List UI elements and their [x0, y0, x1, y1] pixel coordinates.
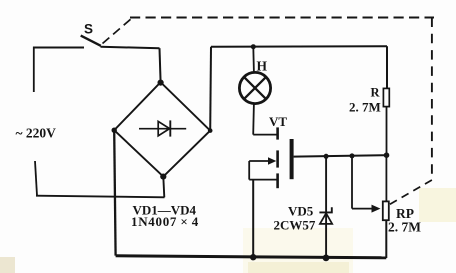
- zener diode VD5 vertical lead: [325, 156, 327, 258]
- wire: VT substrate lead: [249, 160, 270, 162]
- dashed mechanical link: diagonal from switch: [103, 18, 133, 44]
- wire: RP wiper drop: [351, 156, 353, 209]
- wire: left rail upper vertical segment: [33, 47, 35, 92]
- svg-text:R: R: [371, 86, 381, 100]
- wire: VT substrate to source link: [248, 161, 250, 180]
- transistor VT source electrode bar: [276, 173, 279, 188]
- wire: right corner down to resistor R: [386, 46, 388, 88]
- dashed mechanical link: diagonal to RP: [390, 180, 432, 205]
- svg-text:2. 7M: 2. 7M: [349, 100, 381, 115]
- dashed mechanical link: top horizontal: [130, 17, 434, 19]
- junction dot: bridge right vertex: [208, 128, 213, 133]
- potentiometer RP body: [383, 201, 389, 220]
- wire: gate node down to RP top: [385, 155, 387, 201]
- lamp H circle: [239, 72, 270, 103]
- junction dot: bridge top vertex: [158, 80, 164, 86]
- svg-text:VD5: VD5: [288, 204, 314, 219]
- wire: switch pivot to corner: [101, 47, 160, 48]
- wire: RP wiper horizontal: [352, 208, 374, 210]
- transistor VT gate bar: [290, 139, 294, 179]
- wire: corner down to bridge top vertex: [160, 48, 161, 82]
- svg-text:~ 220V: ~ 220V: [16, 126, 57, 141]
- wire: bottom AC horizontal to bridge bottom vertex: [36, 196, 165, 198]
- wire: lamp branch drop from top run: [252, 47, 255, 73]
- svg-text:H: H: [257, 59, 268, 74]
- VT substrate arrowhead: [268, 157, 276, 165]
- zener VD5 cathode bar with bent end: [319, 207, 331, 212]
- svg-text:S: S: [84, 22, 93, 37]
- bridge inner diode cathode bar: [169, 120, 171, 136]
- junction dot: bridge bottom vertex: [160, 174, 166, 180]
- wire: left rail lower vertical segment: [35, 161, 37, 196]
- resistor R body: [383, 88, 389, 106]
- lamp H cross line 1: [244, 77, 266, 99]
- wire: R bottom lead to gate node: [386, 107, 388, 156]
- junction dot: rail / VD5: [323, 255, 330, 262]
- wire: VT source drop to bottom rail: [252, 180, 254, 257]
- wire: RP bottom to rail: [385, 220, 387, 258]
- svg-text:VT: VT: [269, 114, 287, 129]
- junction dot: bridge left vertex: [112, 128, 117, 133]
- wire: gate line from VT to R/RP node: [294, 155, 387, 156]
- wire: left rail top horizontal to switch contact: [33, 47, 84, 49]
- wire: VT source lead: [249, 179, 276, 181]
- lamp H cross line 2: [244, 77, 266, 99]
- transistor VT middle (substrate) electrode bar: [276, 150, 279, 167]
- junction dot: gate line / wiper: [350, 153, 355, 158]
- diode bridge diamond outline: [114, 82, 210, 176]
- wire: top DC+ horizontal run: [211, 45, 387, 48]
- wire: lamp bottom down: [252, 104, 255, 135]
- wire: bottom DC- rail: [116, 256, 387, 258]
- junction dot: rail / VT source: [250, 254, 256, 260]
- RP wiper arrowhead: [372, 205, 381, 213]
- wire: drain lead of VT: [253, 134, 276, 136]
- dashed mechanical link: right vertical: [431, 18, 433, 181]
- svg-text:1N4007 × 4: 1N4007 × 4: [131, 214, 199, 229]
- junction dot: gate line / R-RP node: [384, 152, 390, 158]
- junction dot: gate line / VD5: [324, 154, 329, 159]
- zener VD5 triangle: [320, 213, 332, 224]
- wire: bridge left vertex down to bottom rail: [114, 130, 115, 255]
- switch S blade: [81, 36, 101, 46]
- svg-text:2. 7M: 2. 7M: [388, 220, 421, 235]
- bridge inner diode triangle: [158, 121, 169, 135]
- svg-text:2CW57: 2CW57: [274, 218, 316, 233]
- wire: bridge right vertex up to top corner: [209, 47, 212, 131]
- transistor VT drain electrode bar: [276, 127, 279, 139]
- wire: riser from AC wire up to bridge bottom vertex: [163, 177, 164, 198]
- junction dot: lamp branch on top run: [251, 44, 256, 49]
- bridge inner diode lead line: [139, 128, 186, 130]
